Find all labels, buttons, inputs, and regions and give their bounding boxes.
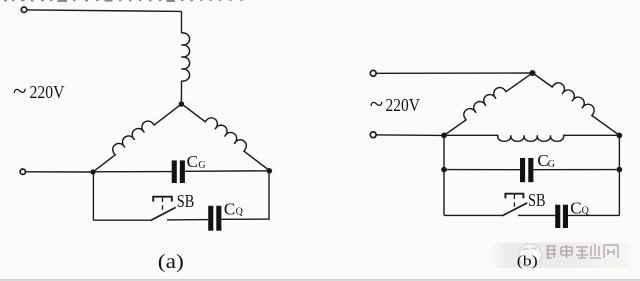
- pushbutton SB (a) cap actuator: [153, 197, 172, 202]
- watermark bar: [490, 243, 632, 269]
- svg-text:(b): (b): [517, 253, 538, 269]
- svg-text:G: G: [548, 159, 555, 170]
- svg-text:220V: 220V: [30, 82, 65, 102]
- node: CG branch left (b): [441, 167, 447, 173]
- wire: bottom loop to switch (a): [93, 219, 150, 221]
- capacitor CQ (b) plates: [555, 205, 560, 228]
- node: right (a): [267, 168, 273, 174]
- wire: corner down to coil: [181, 11, 183, 33]
- wire: coil to star point: [180, 81, 182, 104]
- pushbutton SB (b) cap actuator: [505, 194, 523, 199]
- wire: CG branch right segment (b): [533, 169, 619, 171]
- watermark logo: [519, 244, 542, 267]
- capacitor CG (b) plates: [520, 158, 525, 182]
- svg-text:220V: 220V: [386, 95, 421, 115]
- svg-text:~: ~: [370, 91, 384, 118]
- svg-text:(a): (a): [158, 251, 184, 273]
- winding L2 (left diagonal, a) with wire: [88, 98, 181, 172]
- winding L3 (right diagonal, a) with wire: [182, 98, 275, 171]
- watermark text glyph blocks: [546, 244, 618, 258]
- terminal 1 (a): [21, 7, 26, 12]
- pushbutton SB (b) blade: [502, 203, 527, 216]
- wire: terminal 1 to top corner: [27, 10, 182, 12]
- winding left side (b): [439, 66, 532, 135]
- wire: terminal 1 to apex (b): [376, 72, 532, 74]
- wire: CG branch left segment (b): [444, 169, 520, 171]
- winding right side (b): [533, 66, 624, 135]
- wire: left node to capacitor CG (a): [93, 171, 172, 173]
- node: star point (a): [179, 101, 185, 107]
- wire: right vertical (b): [618, 135, 620, 215]
- wire: bottom branch to switch (b): [444, 214, 502, 216]
- node: apex (b): [530, 70, 536, 76]
- capacitor CQ (a) plates: [208, 206, 213, 231]
- svg-text:Q: Q: [236, 206, 244, 217]
- wire: capacitor CQ to right vertical (b): [568, 214, 619, 216]
- terminal 2 (a): [20, 169, 25, 174]
- wire: right vertical of bottom loop (a): [268, 171, 270, 220]
- terminal 2 (b): [370, 132, 376, 138]
- capacitor CG (a) plates: [172, 160, 177, 183]
- svg-text:~: ~: [13, 78, 27, 105]
- wire: terminal 2 to left node (a): [26, 171, 93, 173]
- node: left (a): [90, 169, 95, 174]
- winding L1 (main, vertical): [182, 33, 190, 81]
- bottom edge line: [0, 279, 640, 280]
- wire: switch to capacitor CQ (b): [518, 214, 555, 216]
- cropped caption text remnants along top edge: [4, 0, 243, 2]
- node: CG branch right (b): [617, 167, 623, 173]
- node: left vertex (b): [441, 133, 447, 139]
- svg-text:C: C: [224, 200, 235, 219]
- wire: left vertical of bottom loop (a): [92, 172, 94, 220]
- winding bottom side (b) with wires: [444, 135, 619, 141]
- pushbutton SB (a) linkage (dashed): [162, 198, 164, 213]
- pushbutton SB (a) blade: [150, 207, 175, 220]
- wire: switch to capacitor CQ (a): [167, 219, 208, 221]
- wire: left vertical (b): [443, 135, 445, 215]
- wire: capacitor CG to right node (a): [185, 170, 269, 173]
- svg-text:C: C: [187, 152, 198, 171]
- svg-text:SB: SB: [177, 191, 195, 211]
- svg-text:SB: SB: [528, 190, 546, 210]
- wire: capacitor CQ to right vertical (a): [221, 218, 269, 220]
- wire: terminal 2 to left vertex (b): [376, 134, 444, 137]
- node: right vertex (b): [617, 133, 623, 139]
- svg-text:G: G: [198, 160, 205, 171]
- pushbutton SB (b) linkage (dashed): [513, 195, 515, 210]
- terminal 1 (b): [370, 70, 376, 76]
